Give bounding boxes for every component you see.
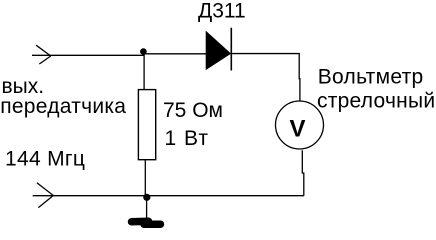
diode Д311 triangle (anode) [206,32,230,69]
svg-text:передатчика: передатчика [0,95,126,118]
wire junction to resistor top [143,53,145,90]
wire bottom rail [33,195,304,197]
wire top mid (junction to diode anode) [144,53,207,55]
wire voltmeter bottom to bottom rail [302,150,304,195]
ground (hand-drawn bar) [132,221,161,224]
node junction dot bottom [143,194,150,201]
wire top left (input to junction) [32,54,144,56]
input arrow top [36,45,51,64]
wire junction to ground [146,197,148,220]
wire right vertical down to voltmeter [298,54,301,101]
input arrow bottom [37,183,53,208]
svg-text:стрелочный: стрелочный [317,89,435,112]
resistor 75 Ом 1 Вт [138,90,155,160]
svg-text:Д311: Д311 [198,0,246,22]
svg-text:144 Мгц: 144 Мгц [5,147,85,170]
voltmeter V1 circle [276,101,324,149]
svg-text:1 Вт: 1 Вт [165,127,209,150]
diode cathode bar [230,28,232,71]
wire diode cathode to right corner [231,53,300,55]
wire resistor bottom to bottom rail [144,160,146,197]
node junction dot top [140,48,147,55]
svg-text:Вольтметр: Вольтметр [318,66,424,89]
svg-text:75 Ом: 75 Ом [163,99,223,122]
svg-text:V: V [289,116,305,143]
